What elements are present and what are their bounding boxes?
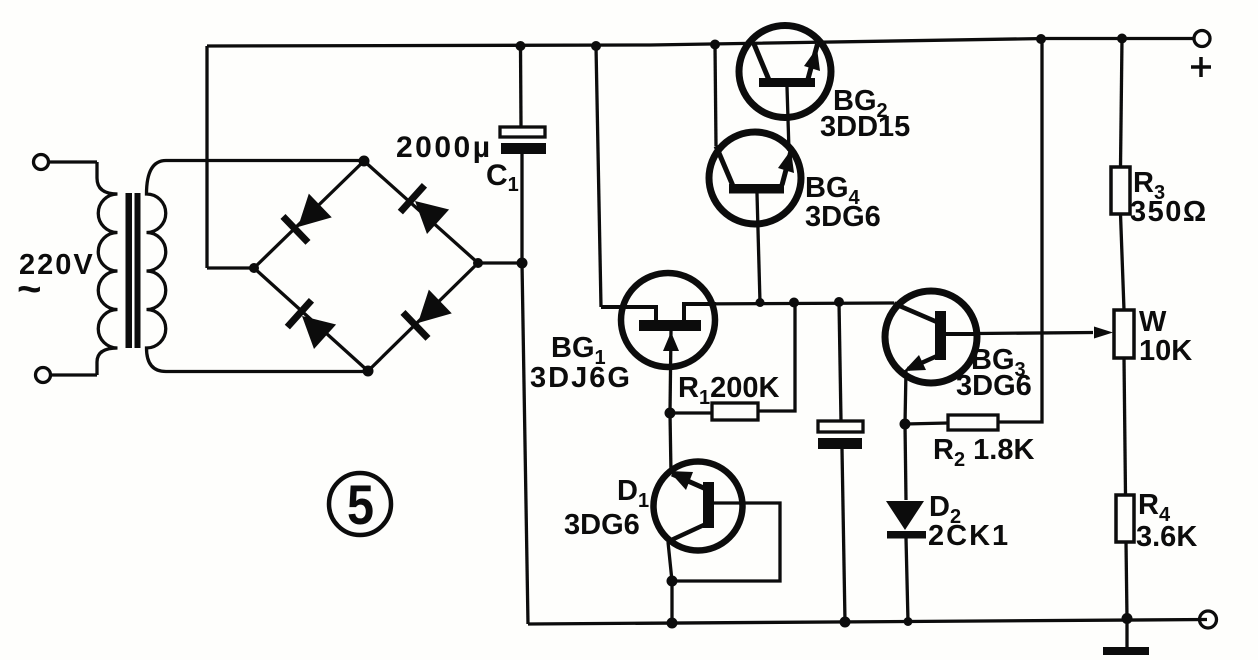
node C1 top rail junction	[516, 41, 526, 51]
svg-text:5: 5	[347, 473, 374, 536]
diode bridge bottom-right	[400, 289, 452, 341]
wire AC bottom lead	[51, 373, 97, 376]
wire BG2 base to BG4 emitter	[787, 87, 789, 151]
capacitor C1	[500, 127, 545, 137]
wire bridge bottom-right side	[368, 263, 478, 371]
svg-text:~: ~	[17, 265, 42, 312]
diode bridge bottom-left	[285, 298, 337, 350]
wire BG1 drain riser	[596, 46, 601, 307]
wire R1 left lead	[670, 411, 712, 414]
terminal output plus	[1194, 31, 1210, 47]
node capacitor C2 junction	[834, 297, 844, 307]
svg-text:3DD15: 3DD15	[820, 111, 910, 143]
transformer T1 secondary winding	[147, 161, 369, 372]
transistor BG3	[885, 291, 978, 383]
terminal AC top	[34, 155, 49, 170]
wire BG4 collector riser	[715, 45, 716, 147]
wire C2 top lead	[839, 302, 841, 421]
node BG3 emitter junction	[900, 419, 911, 430]
node C2 bottom rail junction	[840, 617, 851, 628]
wire R2 right lead and riser	[998, 39, 1042, 422]
svg-text:2000µ: 2000µ	[396, 131, 493, 164]
ground	[1125, 619, 1128, 649]
svg-text:3.6K: 3.6K	[1136, 521, 1197, 553]
wire bridge right node to C1 junction	[478, 261, 522, 264]
svg-text:R2 1.8K: R2 1.8K	[933, 434, 1034, 471]
arrow W wiper	[1094, 327, 1113, 339]
node D1 bottom rail junction	[667, 618, 678, 629]
svg-text:350Ω: 350Ω	[1130, 196, 1208, 228]
figure number 5	[329, 473, 391, 536]
wire left riser to top rail	[205, 46, 208, 268]
wire C1 bottom lead	[520, 154, 523, 263]
svg-text:3DG6: 3DG6	[956, 370, 1032, 402]
wire bridge top-right side	[364, 161, 478, 263]
svg-text:W: W	[1139, 306, 1167, 338]
transformer T1 core	[126, 193, 133, 348]
svg-text:3DG6: 3DG6	[805, 201, 881, 233]
node BG4 base junction	[756, 298, 765, 307]
wire BG3 collector to W wiper	[978, 333, 1093, 334]
node bridge right	[473, 258, 483, 268]
svg-text:D1: D1	[617, 475, 649, 512]
wire D2 top lead	[905, 424, 906, 500]
svg-text:R1200K: R1200K	[678, 372, 779, 409]
wire D1 junction to bottom rail	[670, 581, 673, 623]
node R3 rail junction	[1117, 34, 1127, 44]
node ground junction	[1122, 613, 1133, 624]
wire D2 bottom lead	[906, 538, 908, 622]
node bridge bottom	[363, 366, 374, 377]
diode D2	[886, 501, 926, 539]
svg-text:3DJ6G: 3DJ6G	[530, 362, 632, 394]
node BG4 collector rail junction	[710, 40, 720, 50]
node R1 left junction	[665, 408, 676, 419]
wire BG3 emitter down	[905, 370, 906, 424]
node R2 rail junction	[1036, 34, 1046, 44]
wire R3 to W	[1121, 214, 1125, 310]
terminal AC bottom	[36, 368, 51, 383]
wire D1 base loop	[673, 503, 780, 581]
terminal output bottom	[1200, 611, 1217, 628]
wire bridge top-left side	[254, 161, 364, 268]
transistor BG1	[601, 273, 716, 413]
wire C2 bottom lead	[842, 449, 845, 622]
resistor R3	[1111, 167, 1130, 214]
svg-text:C1: C1	[486, 159, 519, 196]
node R1 top junction	[789, 298, 799, 308]
potentiometer W	[1114, 310, 1134, 358]
wire C1 top lead	[519, 46, 523, 127]
diode bridge top-right	[398, 183, 450, 235]
node BG1 drain rail junction	[591, 41, 601, 51]
wire BG4 base down to node	[757, 194, 760, 303]
wire node line	[684, 303, 894, 304]
transformer T1 primary winding	[97, 162, 118, 375]
wire top positive rail	[207, 39, 1194, 47]
resistor R1	[712, 403, 758, 420]
wire bridge left node to riser	[207, 266, 254, 269]
wire AC top lead	[49, 160, 97, 163]
transistor BG4	[709, 132, 801, 224]
node D1 bottom junction	[667, 576, 678, 587]
wire R4 to bottom rail	[1126, 542, 1127, 619]
svg-text:2CK1: 2CK1	[928, 520, 1010, 552]
transistor D1	[654, 462, 743, 551]
wire R1 right lead up	[758, 303, 795, 412]
wire D1 collector down	[668, 542, 672, 581]
node D2 bottom rail junction	[904, 617, 913, 626]
wire negative column from C1 junction	[522, 263, 528, 624]
wire R2 left lead	[905, 423, 948, 424]
wire bridge bottom-left side	[254, 268, 368, 371]
node bridge left	[249, 263, 259, 273]
wire W to R4	[1124, 358, 1126, 495]
node bridge top	[359, 156, 370, 167]
resistor R2	[948, 415, 998, 430]
wire bottom rail	[528, 620, 1207, 625]
wire D1 top lead	[670, 413, 671, 474]
wire R3 top lead	[1121, 39, 1123, 168]
transistor BG2	[739, 26, 831, 118]
node junction C1 bottom	[517, 258, 528, 269]
label plus sign	[1191, 57, 1211, 77]
svg-text:3DG6: 3DG6	[564, 509, 640, 541]
capacitor C2	[818, 421, 863, 432]
diode bridge top-left	[280, 193, 332, 245]
resistor R4	[1116, 495, 1134, 542]
svg-text:10K: 10K	[1139, 335, 1192, 367]
